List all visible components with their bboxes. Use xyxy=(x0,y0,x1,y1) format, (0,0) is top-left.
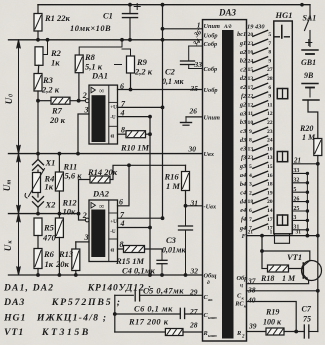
svg-text:20 к: 20 к xyxy=(49,115,66,125)
svg-text:15: 15 xyxy=(267,164,273,170)
wire R19 to C7 xyxy=(284,331,304,333)
svg-text:1: 1 xyxy=(270,230,273,236)
DA3 black bar xyxy=(222,30,234,339)
wire DA2 pin 7 to +bus xyxy=(118,217,163,219)
resistor R9 body xyxy=(127,56,135,73)
svg-text:7: 7 xyxy=(268,41,271,47)
resistor R3 body xyxy=(34,74,42,92)
svg-text:КР140УД12 ;: КР140УД12 ; xyxy=(87,283,152,293)
svg-text:DA2: DA2 xyxy=(92,189,110,199)
svg-text:VT1: VT1 xyxy=(287,252,302,262)
wire DA3 pin 1 supply xyxy=(163,28,203,30)
svg-text:12: 12 xyxy=(267,111,273,117)
junction C3-common xyxy=(184,273,188,277)
svg-text:2,2 к: 2,2 к xyxy=(134,67,153,77)
battery long plate 2 xyxy=(302,83,318,85)
resistor R1 body xyxy=(34,14,42,32)
svg-text:инт: инт xyxy=(208,333,217,338)
svg-text:R6: R6 xyxy=(43,249,55,259)
svg-text:27: 27 xyxy=(267,67,273,73)
junction R6-common xyxy=(36,273,40,277)
resistor R10 body xyxy=(126,131,146,138)
op-amp DA2 cell line xyxy=(109,212,118,214)
svg-text:g4: g4 xyxy=(239,225,246,232)
wire row 28 left xyxy=(115,331,166,333)
junction top rail-SA1 xyxy=(300,3,304,7)
wire DA2 pin 3 xyxy=(76,241,89,243)
wire VT1 collector loop xyxy=(262,236,310,261)
svg-text:ИЖКЦ1-4/8 ;: ИЖКЦ1-4/8 ; xyxy=(36,313,107,324)
junction +U bus-top rail xyxy=(161,3,165,7)
wire DA1 pin 8 to R10 xyxy=(118,133,127,135)
svg-text:a4: a4 xyxy=(240,172,246,179)
wire small stub xyxy=(115,64,122,66)
svg-text:ак: ак xyxy=(208,297,213,302)
wire divider tap to DA2 pin 2 xyxy=(79,180,86,221)
svg-text:38: 38 xyxy=(247,286,256,295)
junction R8/R9-rail xyxy=(120,38,124,42)
wire R8 bottom lead xyxy=(78,73,80,101)
svg-text:39: 39 xyxy=(248,322,257,331)
svg-text:29: 29 xyxy=(189,288,198,297)
wire to DA3 pin 33 xyxy=(189,68,202,70)
wire VT1 emitter to DA3 pin 37 xyxy=(247,280,309,283)
wire stub to R2 tap xyxy=(44,40,48,55)
svg-text:d2: d2 xyxy=(240,75,246,82)
svg-text:КР572ПВ5 ;: КР572ПВ5 ; xyxy=(51,297,122,308)
svg-text:d3: d3 xyxy=(240,137,246,144)
svg-text:HG1: HG1 xyxy=(3,313,26,324)
svg-text:+U: +U xyxy=(110,219,117,225)
wire X1 to R4 xyxy=(37,170,39,172)
op-amp DA1 amplifier symbol xyxy=(91,87,95,93)
svg-text:X2: X2 xyxy=(45,200,57,210)
svg-text:3: 3 xyxy=(84,233,89,242)
svg-text:470: 470 xyxy=(42,233,57,243)
svg-text:75: 75 xyxy=(303,315,311,324)
VT1 collector inside xyxy=(303,261,310,266)
wire R9 top lead xyxy=(122,49,131,56)
resistor R7 body xyxy=(51,97,70,104)
junction C4-common xyxy=(160,273,164,277)
svg-text:α: α xyxy=(111,247,115,254)
svg-text:22: 22 xyxy=(267,120,273,126)
svg-text:5: 5 xyxy=(268,32,271,38)
svg-text:3: 3 xyxy=(249,182,252,188)
svg-text:2: 2 xyxy=(82,91,87,100)
pin 2 circle DA2 (inverting) xyxy=(85,218,89,222)
svg-text:e4: e4 xyxy=(240,207,246,214)
junction R12-common xyxy=(58,273,62,277)
svg-text:9: 9 xyxy=(249,129,252,135)
svg-text:U: U xyxy=(4,97,14,104)
wire right border net xyxy=(317,156,319,332)
svg-text:14: 14 xyxy=(267,208,273,214)
op-amp DA1 inner divider xyxy=(108,85,110,144)
svg-text:∞: ∞ xyxy=(99,86,105,95)
junction R16-pin31 xyxy=(184,204,188,208)
svg-text:e3: e3 xyxy=(240,146,246,153)
svg-text:1 М: 1 М xyxy=(166,181,180,191)
wire R2-R3 xyxy=(37,65,40,73)
wire HG1 pin bus xyxy=(306,173,308,235)
svg-text:0: 0 xyxy=(9,94,15,97)
wire DA1 pin 7 to +bus xyxy=(118,106,163,108)
svg-text:bc1: bc1 xyxy=(237,31,246,38)
capacitor C1 xyxy=(129,5,131,14)
svg-text:b4: b4 xyxy=(240,181,246,188)
wire DA1 pin 4 to -bus xyxy=(118,116,151,118)
resistor R11 body xyxy=(55,172,63,191)
svg-text:КТ315В: КТ315В xyxy=(41,327,91,338)
pin 2 circle (inverting) xyxy=(85,99,89,103)
resistor R20 body xyxy=(314,139,322,156)
svg-text:g3: g3 xyxy=(239,163,246,170)
junction C1 top xyxy=(128,3,132,7)
HG1 decimal point box dp2 xyxy=(277,152,287,162)
svg-text:R: R xyxy=(203,330,208,337)
svg-text:DA1, DA2: DA1, DA2 xyxy=(3,283,54,293)
op-amp DA2 amplifier symbol xyxy=(91,202,95,208)
wire to R7 xyxy=(38,100,51,102)
svg-text:Uобр: Uобр xyxy=(204,87,218,94)
svg-text:b3: b3 xyxy=(240,119,246,126)
svg-text:8: 8 xyxy=(249,138,252,144)
svg-text:g2: g2 xyxy=(239,102,246,109)
switch SA1 lever xyxy=(305,17,311,31)
svg-text:R7: R7 xyxy=(51,106,63,116)
svg-text:100 к: 100 к xyxy=(263,318,282,327)
junction C6-bus xyxy=(113,312,117,316)
svg-text:Uвх: Uвх xyxy=(204,151,215,158)
svg-text:1к: 1к xyxy=(51,58,60,68)
svg-text:6: 6 xyxy=(249,208,252,214)
svg-text:HG1: HG1 xyxy=(275,10,293,20)
junction pin38-border xyxy=(316,289,320,293)
svg-text:Uпит: Uпит xyxy=(204,115,221,122)
svg-text:31: 31 xyxy=(190,199,199,208)
svg-text:R2: R2 xyxy=(50,48,62,58)
svg-text:35: 35 xyxy=(190,84,199,93)
wire R18 left lead down xyxy=(261,251,263,269)
svg-text:DA3: DA3 xyxy=(3,297,25,308)
op-amp DA1 cell line xyxy=(109,101,118,103)
VT1 emitter inside xyxy=(303,275,308,281)
svg-text:2: 2 xyxy=(82,211,87,220)
capacitor C4 xyxy=(161,249,163,260)
wire top +9V rail xyxy=(38,4,310,6)
svg-text:24: 24 xyxy=(267,138,273,144)
resistor R12 body xyxy=(55,218,63,238)
svg-text:R8: R8 xyxy=(84,52,96,62)
wire R16 top lead xyxy=(185,165,187,171)
wire R12 bottom lead xyxy=(58,238,60,276)
junction R7-R8 xyxy=(77,99,81,103)
op-amp DA2 cell line xyxy=(109,238,118,240)
wire R11-R12 xyxy=(58,191,60,218)
svg-text:д: д xyxy=(207,279,210,286)
svg-text:U: U xyxy=(3,244,13,251)
op-amp DA2 black body xyxy=(91,210,105,258)
wire R6 bottom lead xyxy=(37,269,39,276)
resistor R17 body xyxy=(165,329,183,336)
resistor R6 body xyxy=(34,249,42,269)
wire X2 bottom rail xyxy=(9,213,79,215)
junction pin1-bus xyxy=(161,27,165,31)
wire DA3 pin 34 xyxy=(189,45,202,47)
svg-text:R9: R9 xyxy=(136,57,148,67)
wire +U bus from top rail xyxy=(162,5,164,219)
ground symbol xyxy=(185,117,187,123)
junction DA2 out-R16 row xyxy=(127,163,131,167)
svg-text:g1: g1 xyxy=(239,40,246,47)
wire DA2 pin3 to R13 xyxy=(75,242,77,249)
wire R16 bottom lead xyxy=(185,191,187,206)
wire R7 to DA1 pin 2 xyxy=(70,100,85,102)
resistor R2 body xyxy=(35,47,43,66)
junction collector-R18 xyxy=(260,249,264,253)
junction R1-rail xyxy=(36,38,40,42)
svg-text:Uпит: Uпит xyxy=(204,23,221,30)
resistor R16 body xyxy=(182,172,190,191)
svg-text:10: 10 xyxy=(267,146,273,152)
HG1 bottom backplane tab xyxy=(275,234,290,244)
svg-text:инт: инт xyxy=(208,315,217,320)
svg-text:Обр: Обр xyxy=(237,275,248,282)
svg-text:-U: -U xyxy=(110,229,116,235)
svg-text:ц: ц xyxy=(240,283,243,289)
wire R14 to R16 row xyxy=(110,165,186,179)
svg-text:8: 8 xyxy=(121,126,125,135)
wire R9 bottom to pin6 row xyxy=(130,73,132,90)
wire backplane row xyxy=(247,235,318,237)
svg-text:VT1: VT1 xyxy=(4,327,24,338)
svg-text:C2: C2 xyxy=(165,67,176,77)
svg-text:R17 200 к: R17 200 к xyxy=(128,318,169,327)
junction R18 net xyxy=(260,234,264,238)
svg-text:Cобр: Cобр xyxy=(204,66,218,73)
svg-text:R5: R5 xyxy=(43,223,55,233)
svg-text:32: 32 xyxy=(190,267,199,276)
svg-text:b2: b2 xyxy=(240,58,246,65)
svg-text:17: 17 xyxy=(267,217,273,223)
junction R9-output xyxy=(129,88,133,92)
svg-text:R3: R3 xyxy=(42,75,54,85)
svg-text:m: m xyxy=(7,179,13,184)
svg-text:А/д: А/д xyxy=(223,23,232,30)
wire DA1 output to DA3 pin 35 xyxy=(118,89,203,91)
wire R14 left lead xyxy=(79,179,91,181)
svg-text:23: 23 xyxy=(267,129,273,135)
svg-text:2: 2 xyxy=(249,190,252,196)
wire X2 to rail xyxy=(37,207,39,213)
op-amp DA1 black body xyxy=(92,95,106,142)
svg-text:DA1: DA1 xyxy=(91,71,108,81)
connector X2 xyxy=(37,193,39,198)
svg-text:28: 28 xyxy=(267,76,273,82)
svg-text:3: 3 xyxy=(84,106,89,115)
battery long plate 3 xyxy=(303,99,319,101)
wire R13 bottom lead xyxy=(75,271,77,276)
svg-text:f3: f3 xyxy=(241,154,246,161)
wire R18 to VT1 base xyxy=(289,268,304,270)
svg-text:5: 5 xyxy=(249,164,252,170)
svg-text:-U: -U xyxy=(110,115,116,121)
svg-text:R19: R19 xyxy=(265,308,279,317)
svg-text:19: 19 xyxy=(267,190,273,196)
svg-text:c3: c3 xyxy=(240,128,246,135)
svg-text:9В: 9В xyxy=(304,71,314,80)
svg-text:R20: R20 xyxy=(299,124,313,133)
svg-text:21: 21 xyxy=(248,230,254,236)
svg-text:11: 11 xyxy=(267,102,273,108)
resistor R8 body xyxy=(75,55,83,73)
wire row 28 to DA3 pin 28 xyxy=(183,331,202,333)
resistor R5 body xyxy=(34,218,42,236)
junction R11-rail xyxy=(58,152,62,156)
svg-text:f2: f2 xyxy=(241,93,246,100)
resistor R14 body xyxy=(90,176,110,183)
battery stub xyxy=(309,88,311,98)
svg-text:∞: ∞ xyxy=(99,201,105,210)
wire R8 top to rail xyxy=(79,40,122,55)
svg-text:4: 4 xyxy=(120,219,125,228)
svg-text:c4: c4 xyxy=(240,190,246,197)
resistor R15 body xyxy=(124,246,145,253)
junction pin3-rail xyxy=(76,152,80,156)
svg-text:Общ: Общ xyxy=(204,273,218,280)
svg-text:C1: C1 xyxy=(103,11,113,21)
battery long plate 1 xyxy=(302,49,318,51)
svg-text:37: 37 xyxy=(247,277,256,286)
svg-text:40: 40 xyxy=(247,296,256,305)
dimension line for U0 Um Uk xyxy=(17,40,21,275)
svg-text:9: 9 xyxy=(268,58,271,64)
junction pin7 DA2-bus xyxy=(161,216,165,220)
svg-text:0,1 мк: 0,1 мк xyxy=(162,77,184,86)
wire R10 to -bus xyxy=(146,133,151,135)
svg-text:GB1: GB1 xyxy=(301,58,316,67)
wire pin 21 to R20 xyxy=(292,163,318,165)
svg-text:1к: 1к xyxy=(45,182,54,192)
VT1 emitter arrow xyxy=(305,277,308,281)
op-amp DA2 inner divider xyxy=(108,200,110,262)
junction R10-bus xyxy=(148,132,152,136)
wiper arrow of R4 xyxy=(29,169,45,197)
svg-text:R10 1M: R10 1M xyxy=(120,143,150,153)
wire filtered supply rail xyxy=(9,39,203,41)
junction X1-rail xyxy=(36,152,40,156)
svg-text:-Uвх: -Uвх xyxy=(204,203,217,210)
battery short plate 1 xyxy=(306,53,314,55)
HG1 decimal point box dp3 xyxy=(277,215,287,225)
junction X2-rail xyxy=(36,212,40,216)
wire R1 top lead xyxy=(37,5,39,14)
svg-text:α: α xyxy=(111,133,115,140)
svg-text:c2: c2 xyxy=(240,66,246,73)
wire DA3 pin 40 down xyxy=(247,302,297,332)
VT1 base bar xyxy=(302,263,304,278)
svg-text:18: 18 xyxy=(267,182,273,188)
svg-text:20к: 20к xyxy=(55,259,70,269)
resistor R19 body xyxy=(266,328,284,335)
wire DA2 pin 8 to R15 xyxy=(118,248,124,250)
svg-text:R1 22к: R1 22к xyxy=(44,13,71,23)
wire DA1 pin 3 to rail xyxy=(78,114,89,154)
svg-text:1 М: 1 М xyxy=(282,274,296,283)
svg-text:+U: +U xyxy=(110,105,117,111)
junction tap-rail xyxy=(77,212,81,216)
svg-text:28: 28 xyxy=(189,321,198,330)
resistor R18 body xyxy=(268,265,289,272)
wire R11 top lead xyxy=(58,154,60,172)
svg-text:10мк×10В: 10мк×10В xyxy=(70,24,111,33)
wire DA3 pin 38 to border xyxy=(247,290,318,292)
svg-text:8: 8 xyxy=(268,50,271,56)
junction pin7-bus xyxy=(161,106,165,110)
junction right border xyxy=(316,234,320,238)
junction R13-common xyxy=(74,273,78,277)
svg-text:13: 13 xyxy=(267,155,273,161)
HG1 decimal point box dp1 xyxy=(277,89,287,99)
junction pin4-bus xyxy=(148,115,152,119)
svg-text:6: 6 xyxy=(268,85,271,91)
capacitor C7 xyxy=(303,325,305,338)
svg-text:Cобр: Cобр xyxy=(204,41,218,48)
junction pin40-R19/C7 xyxy=(294,330,298,334)
junction C1 bottom xyxy=(128,38,132,42)
wire rail to X1 xyxy=(37,154,39,160)
wire DA2 pin 4 to -bus xyxy=(118,227,151,229)
svg-text:R13: R13 xyxy=(58,249,74,259)
polarity plus of C1 xyxy=(134,6,140,8)
svg-text:33: 33 xyxy=(194,60,203,69)
svg-text:6: 6 xyxy=(119,198,123,207)
svg-text:X1: X1 xyxy=(45,158,56,168)
junction +U bus-rail xyxy=(161,38,165,42)
svg-text:9: 9 xyxy=(268,94,271,100)
wire battery to R20 xyxy=(308,100,318,139)
svg-text:10к: 10к xyxy=(63,207,77,217)
junction pin4 DA2-bus xyxy=(148,226,152,230)
svg-text:d4: d4 xyxy=(240,198,246,205)
junction -U bus-common xyxy=(148,273,152,277)
svg-text:2,2 к: 2,2 к xyxy=(41,85,60,95)
svg-text:a3: a3 xyxy=(240,110,246,117)
svg-text:a2: a2 xyxy=(240,49,246,56)
svg-text:R18: R18 xyxy=(260,274,274,283)
svg-text:1к: 1к xyxy=(45,259,54,269)
wire R3 to X1 rail xyxy=(37,91,39,154)
resistor R13 body xyxy=(72,249,80,271)
svg-text:2: 2 xyxy=(241,335,245,340)
junction R7 tap xyxy=(36,99,40,103)
wire integrator left bus xyxy=(114,295,116,332)
svg-text:C7: C7 xyxy=(302,305,312,314)
wire common rail to DA3 pin 32 xyxy=(9,274,203,276)
wire row 29 left xyxy=(115,294,134,296)
HG1 minus-one indicator xyxy=(281,26,283,39)
svg-text:26: 26 xyxy=(189,107,198,116)
wire Uвх rail to DA3 pin 30 xyxy=(9,153,203,155)
junction HG1 bus xyxy=(306,234,310,238)
wire row 29 to DA3 pin 29 xyxy=(140,294,202,296)
svg-text:30: 30 xyxy=(188,145,197,154)
wire DA2 output up xyxy=(118,165,130,206)
svg-text:4: 4 xyxy=(249,173,252,179)
wire -U bus xyxy=(149,117,151,275)
svg-text:C6 0,1 мк: C6 0,1 мк xyxy=(134,305,173,314)
